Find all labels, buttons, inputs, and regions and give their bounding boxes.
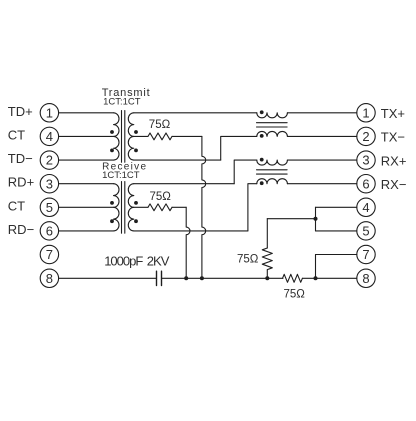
wire jog up RX- [248,184,257,231]
wire R4 to pin8 right [302,277,356,279]
wire choke L2 to pin6 RX- [287,183,356,185]
svg-text:1CT:1CT: 1CT:1CT [103,97,141,108]
svg-text:8: 8 [362,271,369,286]
wire pin8 left to capacitor [59,277,157,279]
transformer T1 primary dot upper [110,130,114,134]
pin 5 right circle [357,222,375,240]
wire capacitor to termination bus [162,277,284,279]
pin 1 left circle [40,104,58,122]
transformer T1 secondary winding [128,113,134,160]
choke L2 core [257,170,288,174]
junction TX CT on bus [200,276,204,280]
wire pins 7-8 tie [315,255,317,279]
transformer T2 core [122,182,125,234]
svg-text:1000pF: 1000pF [104,254,143,269]
svg-text:RX−: RX− [381,177,407,192]
svg-text:RD+: RD+ [8,175,34,190]
svg-text:TX−: TX− [381,130,405,145]
junction R3 to bus [265,276,269,280]
resistor R3 75ohm zigzag [262,248,272,270]
svg-text:75Ω: 75Ω [149,119,171,131]
svg-text:1: 1 [46,105,53,120]
pin 8 right circle [357,269,375,287]
svg-text:6: 6 [46,224,53,239]
choke L1 dot upper [260,110,264,114]
pin 7 right circle [357,245,375,263]
svg-text:4: 4 [362,200,369,215]
svg-text:RD−: RD− [8,222,34,237]
pin 3 left circle [40,175,58,193]
resistor R2 75ohm zigzag [148,204,172,211]
choke L2 winding lower [257,179,288,184]
svg-text:75Ω: 75Ω [150,191,172,203]
transformer T1 core [122,111,125,163]
svg-text:2: 2 [46,153,53,168]
pin 4 left circle [40,127,58,145]
junction pins 4-5 node [314,217,318,221]
svg-text:CT: CT [8,127,25,142]
wire TD+ pin1 to T1 primary top [59,112,114,114]
svg-text:1: 1 [362,105,369,120]
resistor R1 75ohm lead from T1 secondary CT [134,135,148,137]
transformer T2 secondary winding [128,184,134,231]
choke L2 dot upper [260,158,264,162]
wire pin7 right stub [316,254,357,256]
svg-text:4: 4 [46,129,53,144]
svg-text:7: 7 [46,247,53,262]
resistor R1 75ohm zigzag [148,133,172,140]
wire RD- pin6 to T2 primary bottom [59,230,114,232]
wire R1 to vertical drop [172,135,202,137]
wire jog up RX+ [234,160,257,184]
svg-text:TD−: TD− [8,151,33,166]
resistor R2 75ohm lead from T2 secondary CT [134,206,148,208]
svg-text:6: 6 [362,176,369,191]
wire vertical TX CT termination with hops [202,136,206,278]
wire T1 secondary bottom to jog up [134,159,221,161]
wire R2 to vertical drop [172,206,186,208]
choke L1 winding lower [257,131,288,136]
pin 6 right circle [357,175,375,193]
choke L2 dot lower [260,181,264,185]
pin 3 right circle [357,151,375,169]
svg-text:5: 5 [362,224,369,239]
resistor R3 75ohm vertical lead top [266,219,268,248]
svg-text:CT: CT [8,198,25,213]
transformer T1 primary winding [114,113,120,160]
wire pin5 right stub [316,230,357,232]
svg-text:2: 2 [362,129,369,144]
junction RX CT on bus [184,276,188,280]
wire vertical RX CT termination with hop [186,207,190,278]
wire RD+ pin3 to T2 primary top [59,183,114,185]
choke L1 winding upper [257,113,288,118]
svg-text:5: 5 [46,200,53,215]
resistor R4 75ohm zigzag [283,274,303,282]
pin 2 right circle [357,127,375,145]
pin 4 right circle [357,198,375,216]
wire choke L2 to pin3 RX+ [287,159,356,161]
wire CT pin4 to T1 primary center tap [59,135,114,137]
svg-text:3: 3 [362,153,369,168]
wire pin4 right stub [316,206,357,208]
pin 5 left circle [40,198,58,216]
wire RX+ from T2 secondary top [134,183,234,185]
svg-text:TD+: TD+ [8,104,33,119]
choke L1 core [257,123,288,127]
svg-text:75Ω: 75Ω [237,254,259,266]
wire jog up TX- [221,136,257,160]
transformer T2 secondary dot lower [134,219,138,223]
transformer T2 primary dot lower [110,219,114,223]
svg-text:3: 3 [46,176,53,191]
svg-text:1CT:1CT: 1CT:1CT [102,170,140,181]
wire T1 secondary top to choke L1 [134,112,257,114]
svg-text:7: 7 [362,247,369,262]
svg-text:TX+: TX+ [381,106,405,121]
pin 8 left circle [40,269,58,287]
pin 1 right circle [357,104,375,122]
pin 2 left circle [40,151,58,169]
capacitor C1 plates [157,271,162,285]
choke L1 dot lower [260,134,264,138]
junction pins 7-8 node on bus [314,276,318,280]
wire choke L1 to pin2 TX- [287,135,356,137]
svg-text:75Ω: 75Ω [284,289,306,301]
wire pins 4-5 tie [315,207,317,231]
transformer T2 primary dot upper [110,201,114,205]
transformer T1 secondary dot lower [134,149,138,153]
wire CT pin5 to T2 primary center tap [59,206,114,208]
wire choke L1 to pin1 TX+ [287,112,356,114]
wire T2 secondary bottom RX- [134,230,248,232]
choke L2 winding upper [257,160,288,165]
wire TD- pin2 to T1 primary bottom [59,159,114,161]
svg-text:RX+: RX+ [381,153,407,168]
pin 6 left circle [40,222,58,240]
resistor R3 lead bottom [266,270,268,278]
transformer T1 secondary dot upper [134,130,138,134]
transformer T1 primary dot lower [110,149,114,153]
pin 7 left circle [40,245,58,263]
wire R3 top to pins 4-5 node [267,218,315,220]
svg-text:2KV: 2KV [147,254,170,269]
transformer T2 primary winding [114,184,120,231]
svg-text:8: 8 [46,271,53,286]
transformer T2 secondary dot upper [134,201,138,205]
